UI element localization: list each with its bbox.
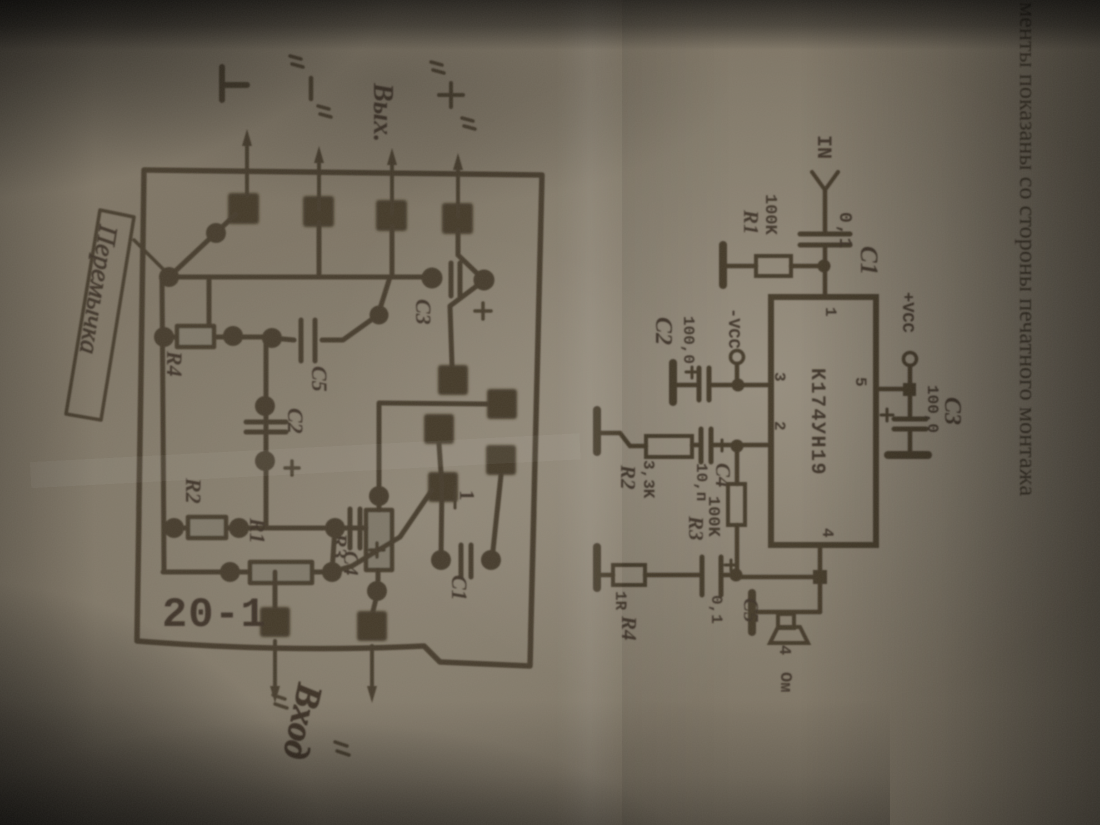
capacitor C2 (pcb) [246, 422, 286, 432]
node d5 [255, 396, 275, 416]
label +VCC [897, 292, 916, 333]
trace C5 column [272, 277, 390, 340]
trace R3 row [373, 496, 379, 611]
node d2 [154, 327, 174, 347]
node A junction [818, 260, 831, 273]
wire junction down to C2 [712, 383, 738, 388]
pad P9 [428, 472, 458, 502]
node d9 [220, 562, 240, 582]
capacitor C5 (pcb) [301, 320, 315, 361]
fold highlight vertical [555, 0, 625, 825]
plus mark (C4) [716, 440, 727, 451]
wire C1 to pin 1 [823, 246, 828, 297]
capacitor C2 [699, 368, 709, 400]
pin 5 label [851, 377, 869, 387]
plus mark (C2) [686, 367, 697, 378]
trace R4 column [163, 335, 272, 340]
wire C3 to ground [908, 430, 913, 452]
label C5 (pcb) [307, 366, 332, 392]
resistor R2 (pcb) [188, 517, 226, 538]
label IN [811, 135, 834, 159]
-VCC terminal circle [731, 351, 744, 364]
plus mark (C3 pcb) [475, 303, 491, 319]
wire pin 4 output [818, 545, 823, 612]
capacitor C1 [800, 234, 850, 245]
node pin2 junction [731, 440, 744, 453]
horizontal crease light on left half [30, 433, 581, 488]
value 3,3K (R2) [639, 460, 657, 499]
label R1 [739, 209, 763, 235]
wire R3 to output column [735, 525, 740, 574]
label 20-1 (board name, reads bottom-to-top) [162, 591, 267, 639]
label C2 (pcb) [283, 408, 308, 434]
label C2 [650, 317, 676, 345]
pad P6 [487, 389, 517, 419]
node d11 [229, 518, 249, 538]
pad P5 [438, 365, 468, 395]
pin 3 label [770, 372, 788, 382]
resistor R2 [646, 436, 692, 457]
capacitor C4 [701, 429, 711, 462]
pin 1 label [821, 307, 839, 317]
resistor R1 (pcb) [250, 562, 312, 583]
ground (R4) [593, 547, 601, 588]
node d17 [474, 270, 495, 291]
caption text (page top, partially cut) [1014, 2, 1040, 496]
value 0,1 (C1) [834, 212, 854, 250]
trace R1 column [163, 570, 332, 575]
node d3 [223, 326, 243, 346]
node d14 [206, 223, 226, 243]
trace R2 column [164, 526, 324, 531]
trace pad row upper [492, 475, 501, 560]
top dark band [0, 0, 1100, 50]
op-amp U1 IC K174UN19 box [771, 297, 876, 545]
ground (speaker) [748, 593, 756, 632]
value 100K (R3) [703, 496, 722, 538]
node +VCC junction [903, 383, 916, 396]
pad P4 [442, 203, 473, 234]
capacitor C1 (pcb) [461, 545, 471, 577]
+VCC rail wire [908, 366, 913, 418]
node d10 [164, 518, 184, 538]
wire pin2 node down to C4 [713, 443, 737, 448]
-VCC stub wire [735, 364, 740, 385]
label R4 (pcb) [162, 350, 187, 377]
node output column junction [730, 569, 743, 582]
plus mark (C5) [725, 560, 736, 571]
value 100,0 (C2) [679, 316, 697, 364]
capacitor C5 [702, 557, 721, 595]
label plus terminal [431, 62, 475, 129]
label Peremychka (handwritten) [74, 222, 124, 356]
label R1 (pcb) [245, 517, 270, 544]
wire C2 to ground [676, 383, 697, 388]
capacitor C4 (pcb) [350, 509, 360, 548]
ground (C2) [669, 363, 677, 402]
trace pad a down to R3 row [379, 403, 487, 496]
right edge dark strip [800, 0, 1100, 825]
quote marks (Vhod) [273, 695, 349, 755]
wire node A down to R1 [791, 264, 824, 269]
value 100,0 (C3) [923, 385, 941, 433]
label R3 [684, 515, 708, 541]
fold shadow right of fold [622, 0, 732, 825]
global vignette left [0, 0, 95, 825]
node d15 [370, 306, 389, 325]
node d18 [369, 486, 389, 506]
label minus terminal [290, 56, 331, 117]
trace P3 row [390, 226, 395, 277]
resistor R3 (pcb) [366, 510, 392, 570]
wire pin2 node to R3 [735, 446, 740, 484]
label R2 [616, 464, 640, 490]
wire pin 5 up [876, 387, 910, 392]
trace pad row lower [439, 444, 442, 560]
wire C4 to R2 [692, 443, 699, 448]
node d6 [255, 451, 275, 471]
input arrow 1 (Vhod) [367, 646, 377, 703]
wire output down to speaker [756, 610, 820, 615]
label C1 (pcb) [447, 575, 472, 601]
output arrow 2 (minus) [314, 146, 324, 210]
label C1 [855, 246, 882, 275]
label R2 (pcb) [181, 477, 206, 504]
value 10,n (C4) [692, 463, 710, 501]
node d16 [422, 268, 443, 289]
node d12 [431, 550, 451, 570]
trace d7 to R1 column [332, 528, 335, 572]
label Vhod (handwritten) [275, 679, 330, 763]
resistor R4 (pcb) [177, 326, 214, 347]
wire input to C1 [823, 189, 828, 233]
pad P3 [376, 200, 407, 231]
bright zone around schematic (photo center-right) [330, 40, 1100, 720]
node d19 [367, 581, 387, 601]
trace branch to R4 column [207, 277, 212, 325]
wire R1 to ground [726, 264, 756, 269]
trace main vertical column [162, 275, 432, 280]
label C3 (pcb) [411, 299, 436, 325]
capacitor C3 (pcb) [451, 263, 460, 296]
node d1 [159, 267, 179, 287]
wire down to C5 [723, 573, 735, 578]
speaker BA1 [770, 614, 808, 643]
bottom-center-left shade [0, 720, 730, 825]
resistor R1 [756, 256, 791, 276]
peremychka callout line [134, 240, 171, 277]
trace C2 row [264, 338, 269, 528]
resistor R4 [613, 565, 645, 585]
wire R2 to ground [599, 433, 646, 446]
node d4 [262, 328, 282, 348]
label 100K (R1) [760, 194, 779, 236]
output arrow 3 (Vyh) [387, 148, 397, 214]
trace P4 to C3 [458, 230, 484, 280]
bottom-left dark corner [0, 580, 330, 825]
wire pin4 node down (feedback/zobel column) [735, 575, 813, 580]
capacitor C3 [894, 419, 926, 429]
plus mark (C4 pcb) [370, 543, 384, 557]
node d7 [325, 518, 345, 538]
value 0,1 (C5) [707, 595, 725, 624]
pad P7 [424, 414, 454, 444]
plus glyph (terminal) [439, 83, 463, 107]
label R3 (pcb) [327, 532, 352, 559]
label R4 [617, 615, 641, 641]
label 4 Om [774, 645, 794, 692]
top-left dark corner [0, 0, 410, 200]
input arrow 2 (Vhod) [270, 641, 280, 703]
trace C4 column [337, 526, 366, 531]
wire C5 to R4 [645, 573, 700, 578]
trace P10 row [273, 572, 278, 607]
label -VCC [723, 308, 742, 349]
pad P11 [357, 611, 387, 641]
peremychka callout box [66, 210, 134, 420]
node -VCC junction [732, 379, 745, 392]
label Vyh. [367, 82, 398, 142]
node pin4 junction [813, 570, 827, 584]
output arrow 4 (plus) [453, 153, 463, 217]
pad P10 [260, 607, 290, 637]
ground (C3) [888, 451, 928, 459]
input arrow [812, 172, 838, 190]
trace C3 to pad P5 [450, 282, 482, 365]
wire pin 2 down [737, 443, 771, 448]
pin 4 label [818, 528, 836, 538]
ground symbol (off-board) [222, 67, 247, 100]
node d13 [481, 550, 501, 570]
wire pin 3 down [738, 383, 771, 388]
ground (R1) [719, 245, 727, 285]
label C3 [939, 397, 965, 425]
trace pad d diagonal to d8 [332, 490, 432, 572]
pad P1 [228, 193, 259, 224]
pad P8 [486, 445, 516, 475]
pin 1 marker underline [454, 486, 457, 508]
pin 2 label [770, 421, 788, 431]
pad P2 [303, 196, 334, 227]
pcb board outline [137, 170, 542, 666]
trace P2 row [317, 222, 322, 277]
label C5 [739, 598, 763, 623]
+VCC terminal circle [904, 353, 917, 366]
value 1R (R4) [611, 591, 629, 611]
pin 1 marker (pcb) [455, 490, 479, 501]
jumper trace (peremychka) [169, 214, 236, 277]
ground (R2) [593, 410, 601, 452]
label C4 [711, 463, 735, 488]
caption darker band [940, 0, 1100, 825]
bottom dark band [0, 700, 890, 825]
plus mark (C3) [881, 409, 893, 421]
resistor R3 [728, 484, 745, 525]
label C4 (pcb) [339, 551, 363, 576]
label K174UN19 [805, 368, 828, 476]
node d8 [322, 562, 342, 582]
wire R4 to ground [600, 573, 613, 578]
plus mark (C2 pcb) [285, 461, 299, 475]
output arrow 1 (to ground) [242, 129, 252, 196]
trace bottom row [162, 277, 164, 572]
